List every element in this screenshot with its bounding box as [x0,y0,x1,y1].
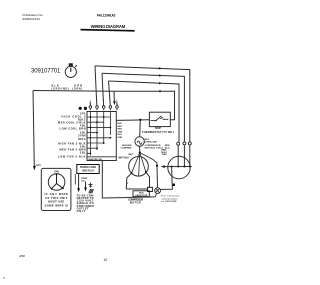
terminal riser t4 [109,81,111,106]
svg-text:4 BL: 4 BL [80,123,86,127]
winding terminal dots [131,172,133,174]
ground wire with arrow (left) [33,91,34,167]
wire labels left of fan leads [165,145,170,150]
svg-text:GRN: GRN [36,165,41,167]
fan lead C [189,145,191,167]
svg-text:ONLY: ONLY [77,209,86,213]
svg-text:MASTER SW: MASTER SW [89,158,103,161]
svg-text:5995321440: 5995321440 [23,17,40,21]
fan lead B [183,145,185,167]
svg-text:OVERLOAD: OVERLOAD [145,140,158,143]
footer dot [3,277,4,278]
plug symbol [89,183,93,188]
terminal circles row [89,106,118,109]
wire junction to ground run [140,153,157,166]
svg-text:5 BL: 5 BL [80,144,86,148]
svg-text:BLU: BLU [118,134,123,136]
svg-text:THERMOSTAT (TU NO.): THERMOSTAT (TU NO.) [142,130,174,134]
svg-text:BLK: BLK [118,123,123,125]
terminal riser t3 [102,73,104,105]
terminal riser t5 stub [116,102,118,106]
ground caption [162,195,179,203]
stub to ground circle [155,193,156,197]
timer stopwatch icon [65,64,76,78]
fan motor chord wire [164,166,192,168]
wire W3 [109,81,180,142]
switch grid horizontals [87,117,116,157]
fan box caption [45,192,69,207]
terminal riser t1 stub [89,102,91,106]
svg-text:TEMP: TEMP [155,128,162,130]
svg-text:RED: RED [162,154,167,156]
junction dot thermostat feed [139,119,141,121]
power cord arrow 2 [85,182,87,189]
label left of junction [120,145,134,156]
solid dots left of terminals [79,107,82,110]
thermostat feed wire [116,119,149,122]
svg-text:For external: For external [162,195,179,198]
wire W2 [102,73,184,142]
terminal riser t2 [95,66,97,106]
svg-text:2 BL: 2 BL [80,151,86,155]
svg-text:FAL123H1A2: FAL123H1A2 [97,13,116,17]
compressor label box [133,191,149,197]
svg-text:connections: connections [162,197,179,200]
svg-text:WHT: WHT [128,154,134,156]
svg-text:RED: RED [118,129,123,131]
svg-text:MOTOR: MOTOR [130,202,141,205]
svg-text:AND PLUG: AND PLUG [82,170,94,173]
svg-text:4/98: 4/98 [19,254,25,258]
svg-text:SAME WIRE IS: SAME WIRE IS [45,203,69,207]
terminal lower ticks [90,109,118,110]
svg-text:POWER CORD: POWER CORD [80,167,96,169]
svg-text:309107701: 309107701 [31,69,61,75]
ground wire from dot [156,166,159,188]
compressor right lead [146,172,150,188]
switch position labels column [58,111,86,158]
cord slashes [89,189,94,193]
svg-text:at GROUND: at GROUND [162,200,177,203]
winding wire right [140,153,146,172]
power box left lead [74,174,76,185]
compressor motor circle [129,157,149,177]
junction J dot [139,152,141,154]
compressor left lead [126,173,131,189]
terminal circle B [183,142,186,145]
power cord note text [77,193,95,213]
run capacitor body [148,187,153,191]
junction dot on W1 [159,67,161,69]
svg-text:10: 10 [104,258,108,262]
svg-text:FAN: FAN [54,171,59,174]
wire overload to junction [139,146,141,152]
svg-text:OFF 2: OFF 2 [78,137,86,141]
terminal circle A [177,142,180,145]
wire color labels right of switch box [118,123,123,139]
fan motor text left [161,149,167,156]
fan symbol circle [48,174,65,191]
overload protector circle [135,137,144,146]
run capacitor wire [126,188,147,190]
fan lead A [177,145,179,166]
power cord arrow 1 [78,174,80,190]
fan chord dots [171,166,173,168]
winding wire left [132,153,140,174]
wire dot to overload [139,120,142,137]
thermostat switch symbol [151,116,169,121]
junction dot on W4 [159,90,161,92]
overload symbol inside [137,141,142,144]
chord arrowhead [161,165,165,168]
svg-text:(GROUND) (ORN): (GROUND) (ORN) [52,88,83,91]
wire W1 [95,66,190,142]
winding wire mid [139,153,140,176]
svg-text:ORN: ORN [118,131,123,133]
thermostat box [149,112,170,126]
junction dot on W2 [159,75,161,77]
svg-text:GRN: GRN [118,137,123,139]
wire W4 [33,91,175,120]
title underline [81,30,135,31]
wire drop arrow at x=114 [113,91,115,102]
svg-text:LOW COOL BRN: LOW COOL BRN [60,127,86,131]
fan box [41,168,71,210]
svg-text:WHT BLK: WHT BLK [119,157,130,159]
svg-text:COMPRES: COMPRES [120,148,132,150]
fan motor circle [168,156,190,178]
selector switch box [87,112,116,161]
terminal labels [90,100,119,102]
svg-text:NO: NO [81,180,85,182]
overload labels right [145,139,163,150]
power cord label box [77,165,99,174]
svg-text:WIRING DIAGRAM: WIRING DIAGRAM [91,24,126,29]
switch grid junction dots [90,116,112,154]
svg-text:WHT: WHT [118,126,123,128]
ground screw circle [155,188,161,194]
svg-text:LOW FAN 2-BLK: LOW FAN 2-BLK [58,154,86,158]
fan Y symbol [52,174,64,189]
bottom wire [102,161,155,199]
switch grid verticals [90,112,110,156]
terminal circle C [188,142,191,145]
junction dot on W3 [159,82,161,84]
fan motor bottom lead [161,167,173,190]
svg-text:MOTOR (2 U NO.): MOTOR (2 U NO.) [145,147,163,149]
